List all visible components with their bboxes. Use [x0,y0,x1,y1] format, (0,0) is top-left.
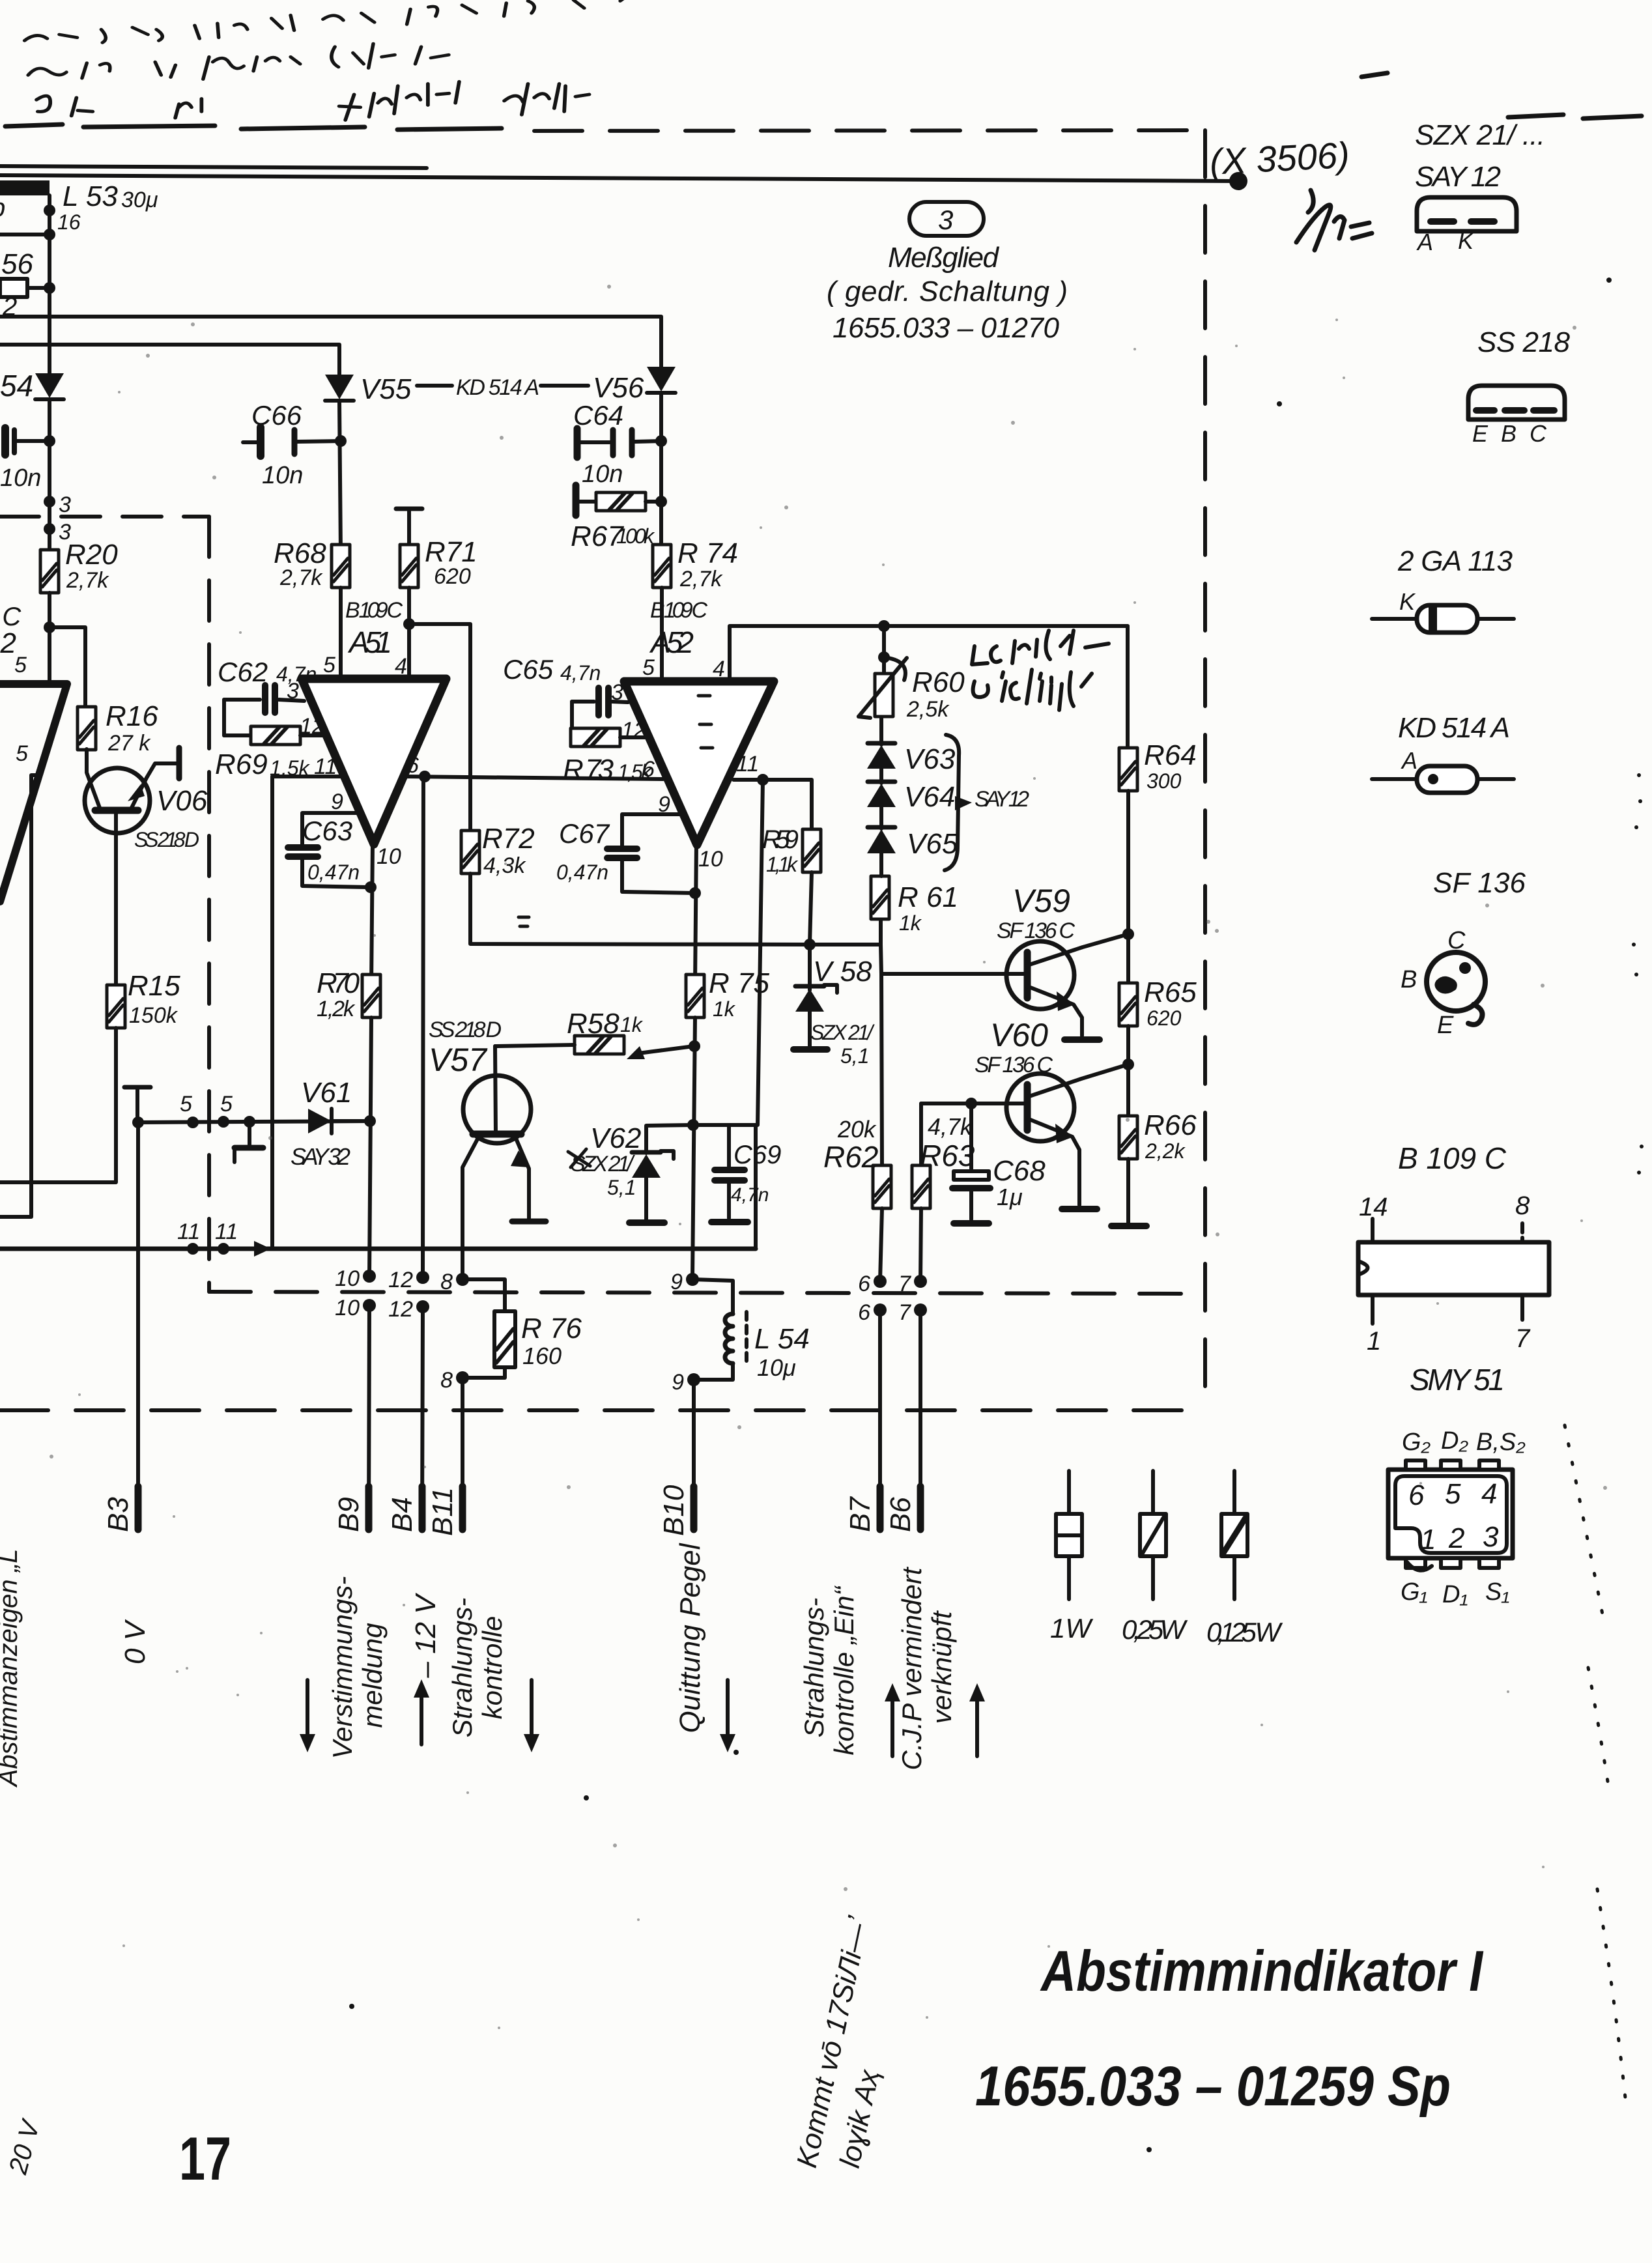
bracket SAY12 [945,735,959,870]
node 10 lower [363,1299,376,1312]
svg-text:54: 54 [0,369,33,403]
capacitor C66 [243,400,341,489]
svg-text:A: A [1401,747,1417,774]
wire A50 pin5 down-left [0,775,38,1217]
svg-text:B7: B7 [844,1496,876,1532]
svg-text:7: 7 [898,1300,911,1325]
svg-text:G₁: G₁ [1401,1578,1428,1606]
legend KD514A [1372,712,1514,793]
zener V58 [793,945,875,1068]
component 56 box at page edge [0,279,27,297]
svg-text:5: 5 [14,653,27,677]
capacitor C63 [288,813,370,887]
svg-text:C69: C69 [733,1141,781,1169]
svg-text:B3: B3 [102,1497,134,1532]
svg-text:10n: 10n [582,461,623,488]
svg-text:10: 10 [335,1296,360,1320]
svg-text:R65: R65 [1144,976,1197,1008]
svg-text:100k: 100k [616,524,655,548]
handwriting underline dashes [5,124,502,130]
handwritten note Leistung [972,631,1109,710]
svg-text:160: 160 [522,1343,562,1369]
svg-text:( gedr. Schaltung ): ( gedr. Schaltung ) [827,276,1068,307]
trimmer R60 [859,620,965,722]
svg-text:R 73: R 73 [563,754,614,786]
legend 2GA113 [1372,545,1514,633]
svg-text:R 74: R 74 [677,537,738,569]
svg-text:1655.033 – 01270: 1655.033 – 01270 [833,312,1060,344]
svg-text:8: 8 [1515,1191,1530,1220]
node pin 3 upper [44,496,55,507]
svg-text:1μ: 1μ [997,1184,1023,1210]
svg-text:K: K [1399,588,1416,615]
scan artifact margin dots [1632,773,1644,1174]
node 5 left [187,1117,199,1128]
diode V56 [647,367,676,393]
svg-text:SF 136 C: SF 136 C [997,918,1075,943]
wire feed to V56 [0,317,661,367]
scan artifact streaks right [1565,1425,1626,2104]
svg-text:1,1k: 1,1k [766,853,799,876]
svg-text:V65: V65 [907,828,958,860]
svg-text:C63: C63 [302,816,352,846]
node V55 C66 [335,435,347,447]
wire V58 node to R61 and V59 base [810,945,882,1167]
svg-text:3: 3 [59,492,71,517]
arrow on 0V rail [254,1241,271,1257]
node 7 lower [914,1303,927,1317]
svg-text:B10: B10 [658,1485,690,1536]
wire R65 to V60 node [1126,1026,1130,1117]
svg-text:E: E [1437,1012,1454,1039]
svg-text:B 109 C: B 109 C [345,598,403,623]
node 6 lower [874,1303,887,1317]
wire R71 to pin4 with feedback node [407,588,411,681]
svg-text:R69: R69 [215,748,268,780]
svg-text:10μ: 10μ [757,1354,796,1381]
svg-text:0,47n: 0,47n [556,861,608,884]
svg-text:B,S₂: B,S₂ [1476,1429,1526,1456]
wire V62 C69 net [693,1123,756,1127]
wire pin4 to R64 bus [730,626,1128,681]
svg-text:10: 10 [698,847,723,872]
svg-text:SS 218: SS 218 [1477,326,1571,358]
label (3) Messglied box [827,202,1068,344]
svg-text:7: 7 [898,1272,911,1296]
svg-text:5: 5 [16,741,28,766]
wire 5-net horizontal [138,1121,369,1122]
wire B6 [919,1310,922,1528]
svg-text:C: C [1530,420,1547,447]
resistor R72 [461,823,535,878]
wire V61 to output line [332,1119,370,1123]
svg-text:R16: R16 [106,700,158,732]
transistor V06 [85,748,179,985]
svg-text:1,2k: 1,2k [317,997,356,1021]
svg-text:2,7k: 2,7k [66,568,109,593]
wire B3 vertical [136,1122,140,1528]
svg-text:9: 9 [672,1370,684,1395]
legend SMY51 [1388,1363,1526,1608]
svg-text:A 52: A 52 [649,625,694,659]
svg-text:Quittung Pegel: Quittung Pegel [674,1543,706,1733]
node 11 left [187,1243,199,1255]
arrow output B11 [524,1680,539,1752]
svg-text:12: 12 [388,1268,413,1292]
svg-text:6: 6 [858,1272,870,1296]
svg-text:V55: V55 [360,373,412,405]
svg-text:11: 11 [177,1219,200,1244]
svg-text:1: 1 [1420,1524,1436,1556]
svg-text:14: 14 [1359,1193,1388,1221]
svg-text:27 k: 27 k [107,731,151,756]
svg-text:SAY 12: SAY 12 [1415,161,1501,193]
svg-text:5: 5 [180,1092,192,1117]
svg-text:4,7n: 4,7n [276,662,317,686]
node 9 lower [687,1373,700,1386]
wire -12V vertical [423,776,423,1277]
svg-text:10n: 10n [0,464,41,492]
svg-text:8: 8 [440,1270,453,1294]
svg-text:kontrolle: kontrolle [477,1616,507,1720]
svg-text:R58: R58 [567,1008,619,1040]
svg-text:1655.033 – 01259 Sp: 1655.033 – 01259 Sp [975,2055,1451,2118]
svg-text:B11: B11 [427,1487,459,1536]
svg-text:4: 4 [395,654,407,679]
svg-text:C65: C65 [503,654,554,685]
svg-text:2,7k: 2,7k [679,567,723,591]
svg-text:0 V: 0 V [119,1619,151,1664]
svg-text:C62: C62 [218,657,268,687]
svg-text:1k: 1k [899,911,922,935]
svg-text:5: 5 [220,1092,233,1117]
svg-text:R68: R68 [274,537,326,569]
svg-text:9: 9 [670,1270,683,1294]
node 10 upper [363,1270,376,1283]
wire feed to V55 [0,345,339,376]
svg-text:10n: 10n [262,462,303,489]
svg-text:V57: V57 [429,1042,488,1078]
arrow input B6 [969,1683,985,1756]
svg-text:SF 136: SF 136 [1433,867,1526,899]
svg-text:L 54: L 54 [754,1323,810,1355]
resistor R16 [78,700,158,756]
svg-text:R 61: R 61 [898,881,958,913]
wire A52 pin11 net [733,780,812,830]
svg-text:L 53: L 53 [63,180,118,212]
legend SZX21 SAY12 [1415,119,1545,255]
svg-text:17: 17 [179,2124,231,2193]
svg-text:V06: V06 [156,785,208,817]
svg-text:4: 4 [713,657,725,681]
svg-text:Strahlungs-: Strahlungs- [799,1598,829,1738]
inner dashed border horizontal bottom [209,1292,1192,1294]
resistor R20 [40,539,118,593]
wire R75 output chain down [692,1018,695,1277]
resistor R62 [823,1116,891,1281]
svg-text:R60: R60 [912,666,965,698]
svg-text:1,5k: 1,5k [618,760,653,784]
node 12 lower [416,1300,429,1313]
legend SF136 [1401,867,1526,1039]
node 8 lower [456,1371,469,1384]
svg-text:Strahlungs-: Strahlungs- [447,1598,477,1738]
wire pin11 to corner [272,776,344,1247]
handwritten note line 1 [25,0,788,79]
svg-text:9: 9 [331,790,343,814]
svg-text:5,1: 5,1 [607,1176,636,1199]
svg-text:6: 6 [858,1300,870,1325]
svg-text:4,7n: 4,7n [560,661,601,685]
capacitor 10n at page edge [0,428,55,492]
rating symbol 0.25W [1122,1471,1188,1645]
svg-text:R20: R20 [65,539,118,571]
rail bar B3 top [124,1087,150,1088]
svg-text:R72: R72 [482,823,535,855]
svg-text:5: 5 [323,653,335,677]
svg-text:SS 218 D: SS 218 D [429,1018,502,1042]
svg-text:R64: R64 [1144,739,1197,771]
svg-text:4,7n: 4,7n [731,1184,769,1206]
inner dashed border vertical divider [207,517,211,1292]
svg-text:R59: R59 [762,825,799,854]
svg-text:C68: C68 [993,1155,1046,1187]
svg-text:V64: V64 [904,781,955,813]
diode V61 [291,1077,352,1170]
svg-text:R71: R71 [425,536,477,568]
svg-text:620: 620 [434,564,471,589]
op-amp A50 partial triangle [0,684,67,902]
resistor R76 [463,1279,582,1378]
svg-text:S₁: S₁ [1485,1578,1509,1606]
wire B10 [692,1380,696,1528]
resistor R70 [317,967,380,1021]
svg-text:B: B [1401,966,1417,993]
svg-text:V60: V60 [990,1017,1048,1053]
svg-text:30μ: 30μ [121,188,158,212]
wire A52 output [695,843,696,985]
legend SS218 [1468,326,1571,447]
svg-text:3: 3 [938,205,953,235]
zener V62 [568,1122,693,1223]
svg-text:(X 3506): (X 3506) [1208,134,1350,182]
wire B11 [461,1378,464,1528]
svg-text:V62: V62 [590,1122,641,1154]
svg-text:2,7k: 2,7k [279,565,323,590]
svg-text:0,47n: 0,47n [307,861,360,884]
svg-text:620: 620 [1146,1006,1182,1030]
svg-text:V 58: V 58 [813,956,872,988]
svg-text:B 109 C: B 109 C [1398,1141,1507,1175]
svg-text:11: 11 [736,752,759,776]
inductor L53 body at page edge [0,180,50,195]
transistor V60 [921,1064,1128,1205]
resistor R59 [762,825,821,945]
ground stub on 5-net [244,1116,255,1128]
svg-text:1k: 1k [713,997,736,1021]
dashed frame right border [1203,130,1207,1410]
svg-text:B 109 C: B 109 C [650,598,707,623]
svg-text:20k: 20k [837,1116,877,1143]
transistor V59 [1006,934,1128,1036]
arrow input B4 [414,1679,429,1744]
scan artifact marks near A51 apex [519,917,529,926]
resistor R58 [495,1008,694,1059]
node 8 upper [456,1273,469,1286]
node 11 right [218,1243,229,1255]
dashed frame bottom border [0,1408,1205,1412]
svg-text:B6: B6 [885,1497,917,1532]
svg-text:B4: B4 [386,1497,418,1532]
svg-text:5,1: 5,1 [840,1044,869,1068]
wire R70 down to terminal 10 [369,1018,371,1277]
svg-text:C67: C67 [559,818,610,849]
wire B9 [369,1305,369,1528]
diode V55 [325,375,354,401]
svg-text:2,2k: 2,2k [1145,1139,1186,1163]
svg-text:V61: V61 [301,1077,352,1109]
svg-text:K: K [1458,227,1475,254]
svg-text:KD 514 A: KD 514 A [456,375,539,400]
capacitor C69 [711,1125,781,1222]
svg-text:300: 300 [1146,769,1182,793]
svg-text:0,125 W: 0,125 W [1206,1617,1283,1647]
wire R20 to node [48,593,51,684]
svg-text:R 76: R 76 [521,1313,582,1345]
svg-text:3: 3 [1483,1521,1499,1553]
resistor R15 [107,970,180,1028]
svg-text:SZX 21/ ...: SZX 21/ ... [1415,119,1545,151]
wire pin6 A51 to A52 [403,776,663,779]
resistor R71 [400,536,477,589]
inner dashed border horizontal left [0,515,209,519]
wire 0V rail horizontal [0,1247,756,1251]
svg-text:p: p [0,193,5,222]
svg-text:Abstimmindikator I: Abstimmindikator I [1040,1939,1483,2003]
svg-text:C: C [1447,927,1466,954]
svg-text:12: 12 [388,1297,413,1322]
capacitor C62 [218,657,317,713]
node pin 3 lower [44,523,55,535]
svg-text:KD 514 A: KD 514 A [1398,712,1510,744]
handwritten mark near X3506 [1296,190,1372,250]
svg-text:Abstimmanzeigen „L: Abstimmanzeigen „L [0,1549,23,1788]
arrow output B9 [300,1680,315,1752]
svg-text:2,5k: 2,5k [906,697,950,722]
node 9 upper [686,1273,699,1286]
svg-text:1W: 1W [1050,1613,1093,1644]
svg-text:150k: 150k [129,1003,178,1028]
capacitor C64 [573,400,661,488]
stray dashes top right [1361,73,1642,119]
svg-text:R 75: R 75 [709,967,769,999]
node pin 16 [44,205,55,216]
arrow output B10 [720,1680,735,1752]
svg-text:G₂: G₂ [1402,1429,1431,1456]
svg-text:kontrolle „Ein“: kontrolle „Ein“ [829,1585,859,1755]
op-amp A52 [624,681,774,845]
svg-text:2 GA 113: 2 GA 113 [1397,545,1513,577]
arrow input B7 [885,1683,900,1756]
wire R68 to pin5 [339,588,343,681]
diode chain V63 [867,717,956,775]
svg-text:SS 218 D: SS 218 D [134,828,199,851]
resistor R73 [563,702,653,786]
op-amp A51 [302,679,446,844]
svg-text:SAY 32: SAY 32 [291,1143,350,1170]
resistor R64 [1119,626,1197,793]
node 7 upper [914,1275,927,1288]
wire B7 [878,1310,882,1528]
rating symbol 1W [1050,1471,1093,1644]
wire stub to left edge [0,233,50,236]
wire top bus upper [0,166,427,168]
svg-text:B9: B9 [333,1497,365,1532]
capacitor C68 [952,1103,1046,1223]
svg-text:7: 7 [1515,1324,1531,1353]
resistor R63 [912,1103,975,1281]
capacitor C67 [556,814,695,893]
svg-text:R66: R66 [1144,1109,1197,1141]
wire R15 to left edge [0,1028,116,1182]
diode V54 [0,369,64,403]
svg-text:56: 56 [1,248,33,280]
svg-text:2: 2 [1448,1522,1464,1554]
wire R64 to V59 node [1126,791,1130,984]
diode V64 [867,769,955,813]
svg-text:A 51: A 51 [347,625,392,659]
node 12 upper [416,1271,429,1284]
wire R72 to V58 node [470,874,810,945]
wire main left vertical [48,195,51,375]
svg-text:verknüpft: verknüpft [926,1610,957,1724]
svg-text:SZX 21/: SZX 21/ [810,1021,875,1044]
resistor R65 [1119,976,1197,1030]
capacitor C65 [503,654,628,715]
rail for R71 [396,508,422,509]
resistor R67 [571,485,661,552]
resistor R61 [871,876,958,945]
wire B4 [422,1307,423,1528]
svg-text:Verstimmungs-: Verstimmungs- [327,1576,358,1759]
dashed frame top border [534,130,1210,131]
inductor L54 [692,1279,810,1381]
svg-text:16: 16 [57,210,81,234]
node X3506 terminal dot [1232,175,1245,188]
svg-text:V63: V63 [904,743,956,775]
resistor R69 [215,700,327,780]
svg-text:SAY 12: SAY 12 [975,787,1029,812]
svg-text:V59: V59 [1012,883,1070,919]
svg-text:R62: R62 [823,1140,878,1174]
svg-text:B: B [1501,420,1517,447]
svg-text:A: A [1416,229,1433,255]
node to R16 elbow [44,621,55,633]
node 6 upper [874,1275,887,1288]
node 5 right [218,1116,229,1128]
diode V65 [867,807,958,876]
legend B109C DIP14 [1358,1141,1549,1356]
svg-text:R15: R15 [128,970,180,1002]
svg-text:V56: V56 [593,372,644,404]
wire top bus to X3506 [0,175,1238,181]
svg-text:11: 11 [215,1219,238,1244]
handwritten note line 2 [36,81,590,120]
transistor V57 [463,1046,531,1277]
svg-text:meldung: meldung [357,1623,388,1728]
svg-text:1: 1 [1367,1327,1381,1356]
svg-text:С.Ј.P vermindert: С.Ј.P vermindert [896,1566,927,1771]
